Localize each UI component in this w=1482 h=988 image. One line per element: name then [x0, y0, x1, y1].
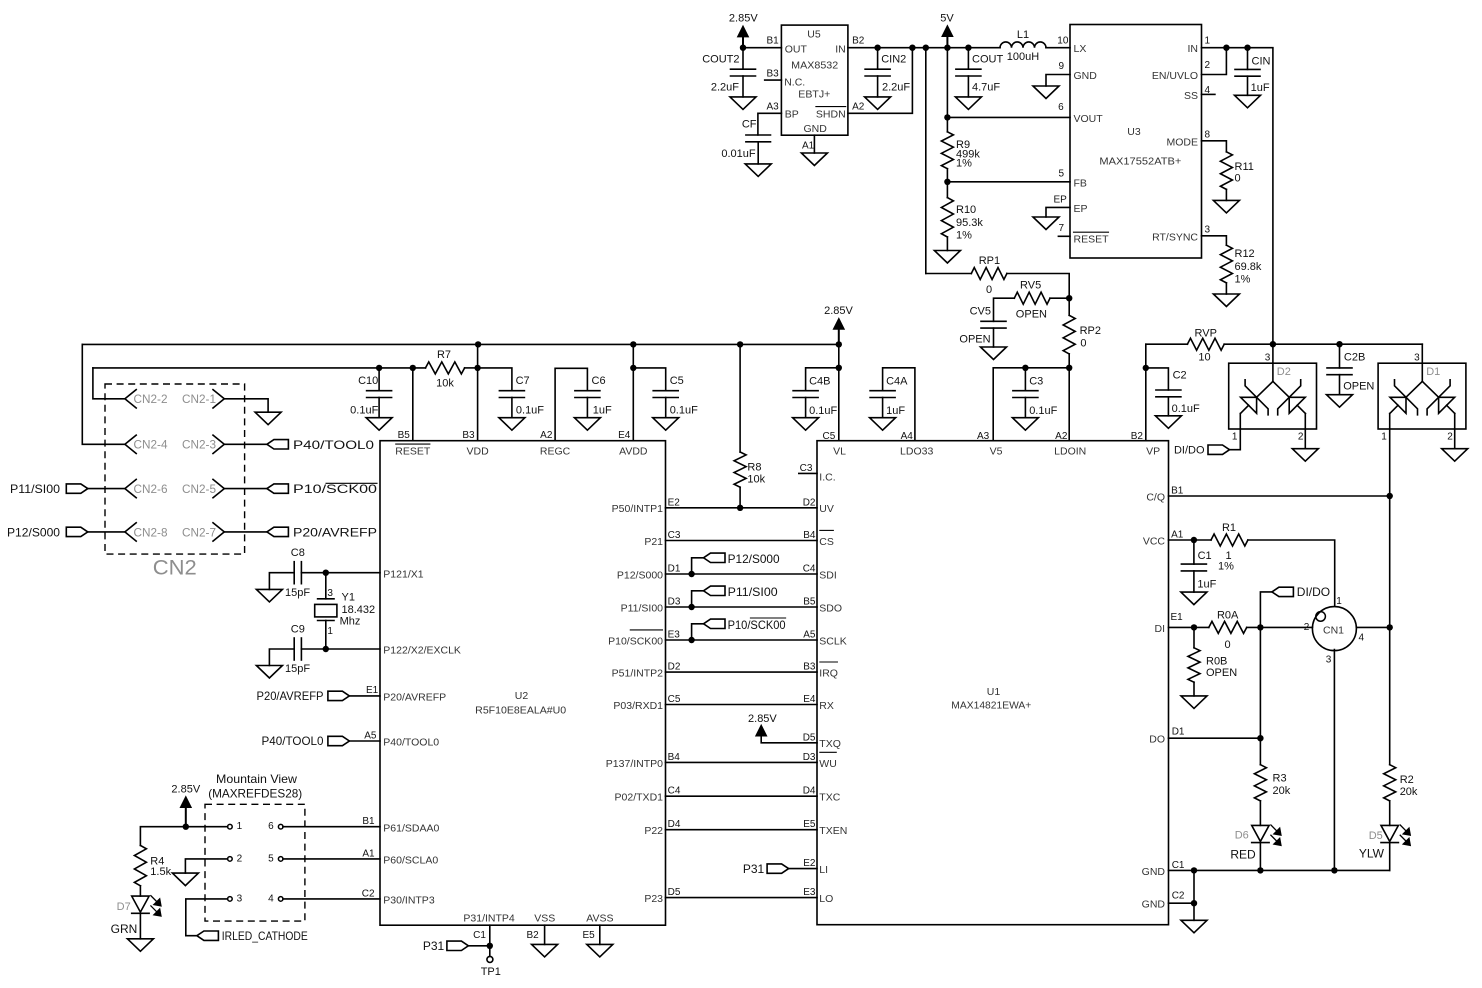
svg-text:CIN: CIN [1252, 56, 1271, 68]
svg-text:DI: DI [1155, 623, 1166, 635]
wire CN1 pin3 [1333, 650, 1335, 871]
pin D5 label (U2 P23) [668, 887, 681, 898]
pin RX (U1) [819, 700, 834, 712]
pin P10/SCK00 (U2) [608, 630, 663, 648]
pin A2 label [852, 101, 865, 112]
wire AVSS stub [599, 925, 601, 944]
svg-text:DI/DO: DI/DO [1297, 585, 1330, 599]
wire COUT2 bottom [742, 76, 744, 97]
svg-text:0.1uF: 0.1uF [809, 405, 837, 417]
wire RT/SYNC to R12 [1202, 236, 1227, 245]
junction [944, 45, 950, 51]
svg-text:B1: B1 [362, 816, 375, 827]
junction [836, 341, 842, 347]
junction [1191, 867, 1197, 873]
pin B3 label (U2) [462, 430, 475, 441]
wire L1 to LX [1046, 47, 1070, 49]
svg-text:C6: C6 [592, 375, 606, 387]
net flag P40/TOOL0 (CN2) [267, 438, 374, 452]
svg-text:RX: RX [819, 700, 834, 712]
wire header pin3 [186, 899, 228, 936]
wire MODE to R11 [1202, 141, 1227, 152]
pin C3 label (U2 P21) [668, 530, 681, 541]
connector pin CN2-7 [182, 523, 224, 541]
wire R9 to FB [946, 169, 948, 182]
svg-text:B4: B4 [803, 530, 816, 541]
junction [874, 45, 880, 51]
junction [1223, 45, 1229, 51]
svg-text:B1: B1 [766, 36, 779, 47]
wire C9 right [301, 648, 325, 650]
wire X1 to Y1 [325, 573, 327, 599]
svg-text:U5: U5 [807, 29, 821, 41]
wire VP riser [1145, 344, 1147, 441]
wire RP2 top [1068, 298, 1070, 315]
pin D2 label (U2 P51/INTP2) [668, 662, 681, 673]
capacitor COUT2 [702, 54, 755, 94]
svg-text:5V: 5V [940, 13, 954, 25]
pin 3 label [1205, 225, 1211, 236]
svg-text:C3: C3 [1029, 376, 1043, 388]
pin REGC (U2) [540, 445, 571, 457]
pin VL (U1) [833, 446, 846, 458]
svg-text:R0A: R0A [1217, 610, 1239, 622]
pin 2 label (D1) [1447, 432, 1453, 443]
wire RX net [666, 704, 818, 706]
pin C/Q (U1) [1146, 491, 1165, 503]
svg-text:E5: E5 [803, 819, 816, 830]
svg-text:Mountain View: Mountain View [216, 772, 297, 786]
wire DI net [1169, 626, 1209, 628]
svg-text:WU: WU [819, 758, 837, 770]
pin B1 label [766, 36, 779, 47]
svg-text:D3: D3 [668, 597, 681, 608]
pin A1 label (U2) [362, 848, 375, 859]
wire CQ vertical [1389, 496, 1391, 765]
junction [376, 365, 382, 371]
svg-text:P40/TOOL0: P40/TOOL0 [293, 438, 374, 452]
svg-text:U3: U3 [1127, 126, 1141, 138]
wire C7 bottom [511, 398, 513, 418]
pin AVDD (U2) [619, 445, 648, 457]
svg-text:D6: D6 [1235, 830, 1249, 842]
svg-text:0.1uF: 0.1uF [350, 405, 378, 417]
svg-text:P20/AVREFP: P20/AVREFP [257, 689, 324, 703]
wire X2 net [326, 648, 380, 650]
svg-text:15pF: 15pF [285, 587, 310, 599]
svg-text:C2: C2 [362, 888, 375, 899]
wire RVP rail left [1146, 343, 1188, 345]
pin 3 label (D2) [1265, 353, 1271, 364]
svg-text:D5: D5 [668, 887, 681, 898]
svg-text:P10/SCK00: P10/SCK00 [728, 618, 786, 632]
pin P121/X1 (U2) [383, 568, 423, 580]
wire header pin1 [186, 826, 228, 828]
junction [1191, 900, 1197, 906]
wire CIN2 top [877, 48, 879, 69]
resistor R0A [1209, 610, 1247, 651]
junction [1387, 493, 1393, 499]
wire CV5 bottom [993, 328, 995, 347]
pin E4 label (U1 RX) [803, 694, 816, 705]
svg-text:0.01uF: 0.01uF [721, 148, 756, 160]
svg-text:3: 3 [1205, 225, 1211, 236]
led D6 [1230, 825, 1280, 862]
wire DO to R3 [1259, 738, 1261, 765]
svg-text:E3: E3 [803, 887, 816, 898]
svg-text:P31: P31 [423, 939, 445, 953]
junction [923, 45, 929, 51]
pin V5 (U1) [990, 446, 1003, 458]
pin P61/SDAA0 (U2) [383, 822, 439, 834]
junction [1257, 867, 1263, 873]
inductor L1 [1000, 29, 1046, 63]
wire IN net [1202, 48, 1273, 345]
wire CIN bottom [1247, 76, 1249, 95]
wire RESET stub [1058, 235, 1070, 237]
ground (AVSS) [587, 944, 613, 957]
pin TXEN (U1) [819, 825, 847, 837]
resistor R2 [1384, 765, 1418, 801]
wire R9 top [946, 117, 948, 131]
svg-text:AVSS: AVSS [586, 912, 613, 924]
svg-text:95.3k: 95.3k [956, 217, 983, 229]
svg-text:0: 0 [1225, 639, 1231, 651]
wire header pin2 [185, 859, 227, 873]
wire 5V rail [848, 47, 1000, 49]
svg-text:D1: D1 [1172, 727, 1185, 738]
svg-text:SDO: SDO [819, 602, 842, 614]
wire header pin6 [283, 826, 380, 828]
pin 1 label [1205, 36, 1211, 47]
wire P31 stub [489, 925, 491, 946]
svg-text:CN2-8: CN2-8 [134, 525, 168, 539]
header pin 4 [268, 893, 283, 904]
wire AVREFP stub [349, 695, 380, 697]
pin B1 label (U1) [1171, 485, 1184, 496]
resistor RP2 [1063, 315, 1101, 354]
pin E2 label (U2 P50/INTP1) [668, 497, 681, 508]
resistor R0B [1188, 648, 1237, 682]
svg-text:B2: B2 [1131, 431, 1144, 442]
svg-text:P40/TOOL0: P40/TOOL0 [262, 734, 324, 748]
connector pin CN2-8 [125, 523, 168, 541]
header pin 2 [228, 853, 243, 864]
svg-text:D3: D3 [803, 752, 816, 763]
svg-text:1.5k: 1.5k [150, 866, 171, 878]
pin D1 label (U1) [1172, 727, 1185, 738]
svg-text:CN2-5: CN2-5 [182, 482, 216, 496]
svg-text:EN/UVLO: EN/UVLO [1152, 70, 1198, 82]
ground (C4A) [870, 418, 896, 431]
svg-text:2.2uF: 2.2uF [882, 82, 910, 94]
capacitor C9 [285, 623, 310, 675]
wire DI/DO riser [1260, 592, 1272, 628]
pin LDO33 (U1) [900, 446, 933, 458]
pin C5 label (U1) [823, 431, 836, 442]
regulator U3 MAX17552ATB+ box [1070, 25, 1202, 259]
resistor R10 [941, 198, 983, 242]
wire VSS stub [544, 925, 546, 944]
svg-text:YLW: YLW [1359, 847, 1385, 861]
svg-text:RESET: RESET [395, 445, 431, 457]
svg-text:A1: A1 [362, 848, 375, 859]
wire VOUT net [947, 116, 1070, 118]
svg-text:B3: B3 [766, 69, 779, 80]
wire BP to CF [758, 113, 782, 135]
wire UV net [666, 507, 818, 509]
pin C4 label (U1 SDI) [803, 564, 816, 575]
wire P11/SI00 flag riser [692, 591, 704, 607]
svg-text:R11: R11 [1235, 161, 1254, 173]
svg-text:5: 5 [268, 853, 274, 864]
svg-text:CF: CF [742, 118, 757, 130]
ground (COUT2) [730, 97, 756, 110]
pin 5 label [1058, 169, 1064, 180]
pin A3 label (U1) [977, 431, 990, 442]
svg-text:P61/SDAA0: P61/SDAA0 [383, 822, 439, 834]
svg-text:N.C.: N.C. [784, 76, 805, 88]
svg-text:R3: R3 [1273, 773, 1287, 785]
svg-text:P137/INTP0: P137/INTP0 [606, 758, 663, 770]
ground (R10) [934, 251, 960, 264]
svg-text:P20/AVREFP: P20/AVREFP [293, 525, 377, 539]
power 2.85V (TXQ) [748, 713, 777, 736]
ground (R0B) [1181, 696, 1207, 709]
svg-text:3: 3 [237, 893, 243, 904]
svg-text:VL: VL [833, 446, 846, 458]
wire V5 riser [993, 368, 1069, 441]
wire TXEN net [666, 829, 818, 831]
pin D4 label (U1 TXC) [803, 786, 816, 797]
pin C1 label (U2) [473, 930, 486, 941]
power 5V [940, 13, 954, 48]
junction [630, 341, 636, 347]
svg-text:GND: GND [1142, 899, 1166, 911]
wire DO net [1169, 737, 1261, 739]
wire U3 GND pin [1046, 75, 1070, 87]
svg-text:A2: A2 [540, 430, 553, 441]
wire CS net [666, 540, 818, 542]
pin P30/INTP3 (U2) [383, 895, 435, 907]
wire OUT net [743, 47, 781, 49]
pin P31/INTP4 (U2) [463, 913, 515, 925]
power 2.85V (rail) [824, 305, 853, 344]
svg-text:LDOIN: LDOIN [1054, 446, 1086, 458]
wire LO net [666, 897, 818, 899]
op-amp U5 MAX8532 box [781, 25, 848, 135]
svg-text:CN2-4: CN2-4 [134, 438, 168, 452]
wire WU net [666, 761, 818, 763]
pin LO (U1) [819, 893, 833, 905]
pin A1 label [802, 141, 815, 152]
net flag P12/S000 (SPI) [704, 552, 780, 566]
wire GND rail [1169, 869, 1390, 871]
svg-text:MAX17552ATB+: MAX17552ATB+ [1099, 156, 1181, 168]
junction [1191, 624, 1197, 630]
svg-text:2.85V: 2.85V [824, 305, 853, 317]
svg-text:P02/TXD1: P02/TXD1 [615, 792, 664, 804]
svg-text:E2: E2 [803, 858, 816, 869]
resistor RP1 [971, 255, 1007, 296]
svg-text:IN: IN [1188, 43, 1199, 55]
svg-text:6: 6 [1058, 102, 1064, 113]
pin A3 label [766, 101, 779, 112]
pin E1 label (U1) [1171, 612, 1184, 623]
junction [1336, 341, 1342, 347]
junction [944, 179, 950, 185]
pin AVSS (U2) [586, 912, 613, 924]
wire R10 bottom [946, 237, 948, 251]
svg-text:P40/TOOL0: P40/TOOL0 [383, 737, 439, 749]
svg-text:MAX8532: MAX8532 [791, 59, 838, 71]
wire P11 to CN2-6 [88, 488, 125, 490]
svg-text:A4: A4 [901, 431, 914, 442]
svg-text:OPEN: OPEN [1343, 380, 1374, 392]
svg-text:1: 1 [1336, 596, 1342, 607]
wire C2 branch [1146, 368, 1169, 390]
svg-text:P11/SI00: P11/SI00 [10, 482, 60, 496]
junction [323, 646, 329, 652]
net flag P11/SI00 (SPI) [704, 585, 778, 599]
pin I.C. (U1) [819, 471, 835, 483]
svg-text:1%: 1% [956, 158, 972, 170]
wire U5 GND pin [813, 135, 815, 153]
junction [688, 571, 694, 577]
svg-text:CN2-7: CN2-7 [182, 525, 216, 539]
svg-text:A2: A2 [1055, 431, 1068, 442]
svg-text:R5F10E8EALA#U0: R5F10E8EALA#U0 [475, 705, 566, 717]
junction [474, 365, 480, 371]
svg-text:R0B: R0B [1206, 656, 1227, 668]
svg-text:C3: C3 [800, 463, 813, 474]
net flag P10/SCK00 (SPI) [704, 618, 786, 632]
svg-text:R8: R8 [747, 462, 761, 474]
pin 7 label [1058, 223, 1064, 234]
svg-text:3: 3 [327, 588, 333, 599]
svg-text:1: 1 [327, 626, 333, 637]
svg-text:P22: P22 [644, 825, 663, 837]
junction [1244, 45, 1250, 51]
diode D1 (dual TVS) [1378, 363, 1466, 429]
wire R2 to D5 [1389, 801, 1391, 826]
wire TXC net [666, 795, 818, 797]
pin B1 label (U2) [362, 816, 375, 827]
pin 8 label [1205, 130, 1211, 141]
pin D4 label (U2 P22) [668, 819, 681, 830]
wire CN2-1 to gnd [224, 399, 268, 412]
svg-text:L1: L1 [1017, 29, 1029, 41]
svg-text:2: 2 [237, 853, 243, 864]
pin VCC (U1) [1143, 535, 1166, 547]
pin E3 label (U2 P10/SCK00) [668, 630, 681, 641]
svg-text:EBTJ+: EBTJ+ [798, 88, 830, 100]
svg-text:RP2: RP2 [1080, 325, 1101, 337]
svg-text:2.85V: 2.85V [729, 13, 758, 25]
svg-text:0: 0 [1235, 172, 1241, 184]
svg-text:2.85V: 2.85V [748, 713, 777, 725]
pin SDI (U1) [819, 569, 837, 581]
pin P137/INTP0 (U2) [606, 758, 663, 770]
wire EP pin [1046, 207, 1070, 217]
svg-text:C4A: C4A [886, 375, 908, 387]
svg-text:E4: E4 [618, 430, 631, 441]
junction [1191, 537, 1197, 543]
wire C9 left [269, 649, 294, 666]
wire C5 branch [633, 368, 665, 391]
ground (VSS) [532, 944, 558, 957]
svg-text:2: 2 [1298, 432, 1304, 443]
svg-text:A5: A5 [364, 730, 377, 741]
pin SCLK (U1) [819, 635, 846, 647]
svg-text:CN2-2: CN2-2 [134, 392, 168, 406]
svg-text:EP: EP [1053, 194, 1067, 205]
capacitor CIN [1235, 56, 1271, 94]
transceiver U1 MAX14821EWA+ box [817, 441, 1169, 925]
testpoint TP1 [481, 946, 501, 978]
svg-text:Mhz: Mhz [340, 616, 361, 628]
svg-text:A2: A2 [852, 101, 865, 112]
svg-text:R2: R2 [1400, 774, 1414, 786]
svg-text:B5: B5 [803, 597, 816, 608]
pin 4 label [1205, 85, 1211, 96]
wire TOOL0 to CN2-2 [93, 368, 125, 399]
svg-text:A1: A1 [1171, 530, 1184, 541]
capacitor C8 [285, 547, 310, 599]
wire COUT2 top [742, 48, 744, 69]
pin P11/SI00 (U2) [621, 602, 664, 614]
pin B3 label [766, 69, 779, 80]
svg-text:VCC: VCC [1143, 535, 1166, 547]
svg-text:B2: B2 [852, 36, 865, 47]
svg-text:VDD: VDD [467, 445, 490, 457]
pin C2 label (U1) [1172, 891, 1185, 902]
capacitor COUT [956, 54, 1004, 94]
svg-text:R1: R1 [1222, 522, 1236, 534]
svg-text:SHDN: SHDN [816, 109, 846, 121]
ground (D2 pin2) [1292, 449, 1318, 462]
junction [1143, 365, 1149, 371]
ground (C8) [256, 589, 282, 602]
wire P10/SCK00 flag riser [692, 624, 704, 640]
svg-text:9: 9 [1058, 61, 1064, 72]
svg-text:P11/SI00: P11/SI00 [621, 602, 664, 614]
pin E5 label (U2) [582, 930, 595, 941]
junction [630, 365, 636, 371]
svg-text:18.432: 18.432 [342, 604, 376, 616]
svg-text:1uF: 1uF [593, 405, 612, 417]
junction [944, 114, 950, 120]
svg-text:EP: EP [1074, 203, 1088, 215]
pin 2 label [1205, 60, 1211, 71]
svg-text:D7: D7 [117, 901, 131, 913]
svg-text:B3: B3 [462, 430, 475, 441]
pin TXQ (U1) [819, 738, 841, 750]
svg-text:IRQ: IRQ [819, 668, 838, 680]
svg-text:U2: U2 [515, 690, 529, 702]
junction [1066, 365, 1072, 371]
svg-text:1uF: 1uF [886, 405, 905, 417]
net flag P10/SCK00 (CN2) [267, 482, 378, 496]
pin P60/SCLA0 (U2) [383, 855, 438, 867]
ground (C6) [574, 418, 600, 431]
pin C5 label (U2 P03/RXD1) [668, 694, 681, 705]
resistor R12 [1220, 245, 1262, 285]
capacitor C7 [499, 375, 544, 417]
wire VL riser [838, 344, 840, 440]
svg-text:D5: D5 [1369, 830, 1383, 842]
svg-text:P21: P21 [644, 536, 663, 548]
